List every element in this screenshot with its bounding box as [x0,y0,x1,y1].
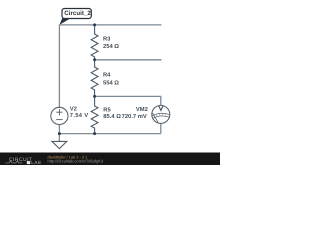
wire left vertical (V2 branch) [58,25,60,107]
node dot R5 bottom junction [93,132,96,135]
svg-text:http://circuitlab.com/c/785sfg: http://circuitlab.com/c/785sfgK3 [48,159,104,164]
svg-text:7.54 V: 7.54 V [70,113,89,119]
footer logo waveform [6,161,23,163]
ground [52,141,67,148]
Circuit_2 callout box [62,9,91,19]
Circuit_2 callout tail [59,18,70,25]
wire top net [59,24,161,26]
svg-text:554 Ω: 554 Ω [103,79,119,86]
node dot ground junction [58,132,61,135]
resistor R5 [91,96,98,133]
wire middle net R3-R4 junction [95,59,162,61]
node dot top (R3 top junction) [93,23,96,26]
voltage source V2 [51,107,68,124]
wire bottom net [59,133,160,135]
node dot R3-R4 junction [93,58,96,61]
node dot R4-R5 junction [93,95,96,98]
footer logo bright mark [27,161,30,164]
svg-text:Circuit_2: Circuit_2 [64,10,91,17]
svg-text:VM2: VM2 [136,106,148,113]
svg-text:LAB: LAB [31,160,41,165]
svg-text:254 Ω: 254 Ω [103,43,119,50]
svg-text:R3: R3 [103,35,111,42]
svg-text:V2: V2 [70,106,77,113]
voltmeter VM2 [152,105,170,123]
resistor R4 [91,60,98,97]
svg-text:720.7 mV: 720.7 mV [122,113,147,120]
svg-text:R5: R5 [103,108,111,114]
wire VM2 bottom lead [160,124,162,134]
resistor R3 [91,25,98,60]
footer bar [0,153,220,166]
svg-text:R4: R4 [103,72,111,78]
wire below V2 to ground [58,125,60,142]
svg-text:85.4 Ω: 85.4 Ω [103,113,121,120]
wire R4-R5 junction to VM2 [95,96,161,105]
